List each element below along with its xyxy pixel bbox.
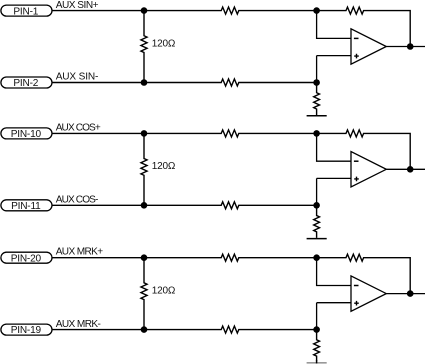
svg-text:PIN-20: PIN-20 xyxy=(11,253,42,264)
svg-text:PIN-19: PIN-19 xyxy=(11,325,42,336)
svg-text:PIN-1: PIN-1 xyxy=(13,6,38,17)
svg-text:AUX MRK-: AUX MRK- xyxy=(56,319,101,330)
svg-text:AUX COS-: AUX COS- xyxy=(56,194,98,205)
svg-text:PIN-10: PIN-10 xyxy=(11,129,42,140)
svg-text:AUX SIN-: AUX SIN- xyxy=(56,72,98,83)
svg-text:120Ω: 120Ω xyxy=(152,286,176,297)
svg-text:AUX MRK+: AUX MRK+ xyxy=(56,247,103,258)
svg-text:AUX SIN+: AUX SIN+ xyxy=(56,0,99,11)
svg-text:PIN-2: PIN-2 xyxy=(13,78,38,89)
svg-text:120Ω: 120Ω xyxy=(152,38,176,49)
svg-text:AUX COS+: AUX COS+ xyxy=(56,123,101,134)
svg-text:PIN-11: PIN-11 xyxy=(11,201,41,212)
svg-text:120Ω: 120Ω xyxy=(152,161,176,172)
